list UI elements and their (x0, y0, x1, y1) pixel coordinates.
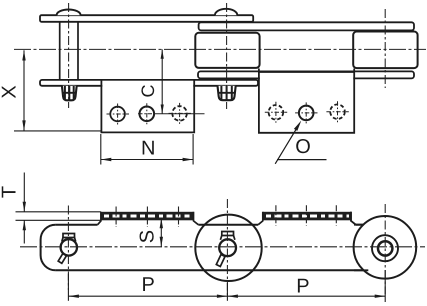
plate top edge segments (56, 224, 98, 226)
pin 1 centerline (68, 3, 70, 108)
pin 2 side view: cotter leg (216, 255, 225, 267)
pin 3 centerline (384, 9, 386, 88)
attachment flange strip 2 (side view) (258, 212, 356, 225)
pin 1 side view: cotter leg (58, 253, 67, 264)
pin 1 body (60, 22, 78, 79)
dimension C arrows (161, 49, 164, 58)
pin 1 side view: collar (62, 238, 76, 242)
dimension N arrows (101, 158, 112, 161)
leader line for O (275, 124, 299, 164)
pin 2 side view: collar (220, 236, 235, 240)
outer link plate, near side (40, 80, 258, 86)
attachment K1 hole 1 (110, 107, 125, 122)
svg-text:P: P (296, 275, 309, 297)
dimension P extension lines (67, 274, 69, 301)
svg-text:C: C (138, 85, 158, 98)
attachment flange strip 1 (side view, with hidden hole slots) (98, 212, 199, 225)
attachment plate K1 (left, bent flange with holes) (101, 80, 194, 132)
svg-text:P: P (142, 274, 155, 296)
pin 1 side view: cotter cap (63, 234, 75, 238)
pin 2 centerline (226, 3, 228, 109)
plate bottom edge (56, 269, 369, 271)
dimension S line (160, 219, 162, 247)
dimension N line (101, 159, 193, 161)
pin 1 side view: pin circle (61, 239, 77, 255)
bushing circle joint 3 (372, 235, 398, 261)
K1 hole centerlines (107, 103, 192, 125)
chain horizontal centerline (top view) (14, 48, 426, 50)
attachment K2 hole 3 (330, 104, 345, 119)
dimension T line upper segment (23, 173, 25, 212)
svg-text:T: T (0, 186, 21, 198)
attachment K1 hole 3 (172, 106, 187, 121)
pin 2 side view: cotter cap (222, 232, 234, 236)
side view link plate outline (41, 225, 369, 271)
K2 hole centerlines (265, 101, 349, 123)
dimension S arrows (160, 218, 163, 228)
strip 1 hole centerline ticks (116, 207, 178, 228)
dimension T line lower segment (23, 220, 25, 243)
dimension X arrows (22, 50, 25, 60)
joint 2 vertical centerline (226, 199, 228, 295)
roller at pin 3 (top view) (353, 32, 417, 69)
pin 2 dome head (215, 9, 237, 15)
dimension C line (161, 49, 163, 114)
svg-text:S: S (137, 230, 159, 243)
plate edge stubs entering roller 3 (354, 225, 368, 271)
hole centerline extension (solid) (154, 113, 205, 115)
attachment K2 hole 2 (299, 106, 314, 121)
attachment plate K2 (right, bent flange with holes) (259, 69, 354, 133)
joint 1 vertical centerline (67, 206, 69, 291)
plate left rounded end (41, 225, 56, 271)
joint 3 vertical centerline (384, 204, 386, 294)
pin 1 dome head (57, 10, 81, 16)
roller at joint 2 (side view circle) (195, 215, 261, 281)
pin 2 rivet end (218, 86, 236, 101)
chain horizontal centerline (side view) (20, 246, 425, 248)
pin 2 side view: pin circle (219, 239, 236, 256)
roller at pin 2 (top view) (195, 33, 259, 68)
svg-text:O: O (295, 136, 311, 158)
dimension N extension lines (101, 134, 193, 165)
dimension T arrows (23, 202, 26, 212)
svg-text:N: N (141, 138, 155, 160)
leader arrowhead (294, 121, 301, 131)
dimension X line (23, 50, 25, 131)
svg-text:X: X (0, 85, 21, 98)
dimension X extension line (bottom) (14, 130, 101, 132)
dimension P arrows (68, 295, 79, 298)
roller at joint 3 (side view circle) (354, 216, 417, 279)
dimension T extension lines (16, 212, 101, 221)
pin 1 rivet end (62, 86, 77, 101)
strip 2 hole centerline ticks (276, 205, 336, 226)
attachment K1 hole 2 (140, 107, 155, 122)
inner link plate, near side (198, 71, 414, 78)
pin circle joint 3 (378, 241, 392, 255)
dimension P line (68, 295, 385, 297)
inner link plate, far side (199, 22, 414, 30)
attachment K2 hole 1 (269, 105, 284, 120)
outer link plate, far side (40, 15, 253, 22)
